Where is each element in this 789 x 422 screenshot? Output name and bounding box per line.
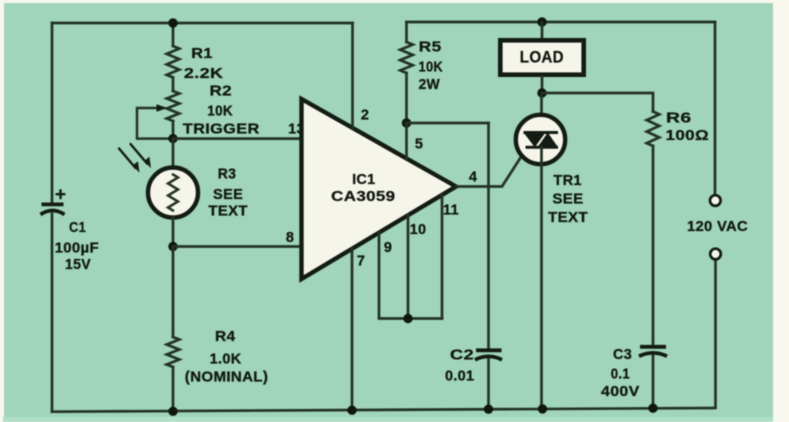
wire - LOAD bottom lead — [541, 77, 544, 94]
label pin 7 — [357, 253, 365, 269]
svg-text:11: 11 — [443, 202, 459, 218]
wire - R1/R2 link — [172, 78, 175, 92]
label R2 — [183, 83, 260, 137]
wire - R4 top lead — [172, 247, 175, 338]
svg-text:TR1: TR1 — [553, 173, 582, 189]
wire - pin 2 lead — [351, 23, 354, 129]
label pin 13 — [288, 121, 305, 137]
svg-text:R6: R6 — [666, 111, 692, 127]
node - 9/10/11 junction — [403, 314, 412, 323]
wire - R6 branch top — [542, 93, 653, 112]
wire - LOAD top lead — [541, 22, 544, 40]
node - pin 8 junction — [168, 242, 177, 251]
svg-text:400V: 400V — [601, 384, 640, 400]
wire - right rail lower — [714, 259, 717, 407]
svg-text:4: 4 — [469, 169, 477, 185]
svg-text:CA3059: CA3059 — [331, 189, 395, 205]
svg-text:C1: C1 — [69, 220, 86, 236]
wire - left rail upper (C1 top lead) — [51, 23, 54, 204]
wire - R2 wiper arm — [137, 104, 168, 138]
resistor R1 — [167, 46, 180, 78]
label pin 11 — [443, 202, 459, 218]
svg-text:C3: C3 — [613, 347, 632, 363]
svg-text:(NOMINAL): (NOMINAL) — [185, 370, 268, 386]
svg-text:100µF: 100µF — [55, 241, 99, 257]
wire - left rail lower (C1 bottom lead) — [51, 214, 54, 412]
svg-text:TEXT: TEXT — [208, 203, 247, 219]
label TR1 — [548, 173, 588, 226]
wire - TR1 bottom terminal — [540, 147, 543, 409]
wire - pin 8 lead — [173, 245, 302, 248]
svg-text:R5: R5 — [419, 39, 442, 55]
svg-text:R3: R3 — [218, 166, 237, 182]
wire - R5 bottom lead — [405, 73, 408, 123]
node - trigger junction — [168, 134, 177, 143]
svg-text:15V: 15V — [65, 257, 91, 273]
wire - R3 top lead — [172, 139, 175, 167]
svg-text:TRIGGER: TRIGGER — [183, 122, 260, 138]
node - C2 bottom — [484, 405, 493, 414]
resistor R6 — [647, 112, 660, 147]
wire - top-left rail — [52, 22, 353, 25]
resistor R4 — [167, 337, 180, 367]
node - load top junction — [537, 17, 546, 26]
wire - pin 11 lead — [441, 195, 444, 319]
svg-text:LOAD: LOAD — [520, 49, 564, 67]
terminal - AC top — [710, 195, 721, 206]
wire - C2 top lead — [487, 123, 490, 350]
triac TR1 — [516, 115, 565, 164]
wire - pin 7 lead — [351, 249, 354, 411]
svg-text:R4: R4 — [215, 329, 235, 345]
svg-text:100Ω: 100Ω — [666, 128, 710, 144]
terminal - AC bottom — [710, 249, 721, 260]
label pin 4 — [469, 169, 477, 185]
node - TR1 top junction — [537, 88, 546, 97]
node - pin 5 junction — [402, 118, 411, 127]
label pin 10 — [410, 222, 427, 238]
svg-text:0.01: 0.01 — [445, 369, 474, 385]
svg-text:2W: 2W — [419, 77, 441, 93]
label R1 — [184, 46, 224, 82]
wire - pin 9 lead — [379, 232, 442, 318]
wire - R3 bottom lead — [172, 217, 175, 247]
label pin 8 — [286, 230, 294, 246]
label pin 2 — [361, 108, 369, 124]
wire - junction to C2 branch — [407, 122, 489, 125]
wire - R1 top lead — [172, 23, 175, 46]
node - C3 bottom — [648, 404, 657, 413]
op-amp U1 IC1 CA3059 — [302, 99, 457, 279]
capacitor C3 — [639, 347, 667, 356]
wire - pin 4 gate lead — [456, 148, 527, 187]
label R4 — [185, 329, 268, 385]
wire - R4 bottom lead — [172, 367, 175, 411]
wire - C2 bottom lead — [487, 360, 490, 410]
wire - pin 5 lead — [405, 123, 408, 159]
label pin 5 — [415, 137, 423, 153]
potentiometer R2 — [167, 91, 180, 121]
wire - bottom rail — [52, 408, 715, 412]
svg-text:5: 5 — [415, 137, 423, 153]
wire - R2 bottom lead — [172, 121, 175, 139]
svg-text:8: 8 — [286, 230, 294, 246]
label R3 — [208, 166, 247, 219]
wire - R5 top lead — [405, 22, 408, 42]
label R5 — [419, 39, 444, 93]
svg-text:C2: C2 — [450, 348, 474, 364]
svg-text:TEXT: TEXT — [548, 210, 588, 226]
wire - top-right rail — [407, 21, 716, 24]
svg-text:10K: 10K — [419, 59, 444, 75]
label 120 VAC — [687, 219, 748, 235]
capacitor C1 — [41, 190, 65, 214]
node - top rail R1 junction — [168, 18, 177, 27]
svg-text:10K: 10K — [207, 104, 233, 120]
label C3 — [601, 347, 640, 400]
node - TR1 bottom — [538, 404, 547, 413]
svg-text:9: 9 — [384, 240, 392, 256]
svg-text:10: 10 — [410, 222, 427, 238]
svg-text:7: 7 — [357, 253, 365, 269]
svg-text:2.2K: 2.2K — [184, 66, 224, 82]
label C2 — [445, 348, 474, 385]
wire - pin 13 lead — [173, 137, 302, 140]
svg-text:SEE: SEE — [552, 192, 583, 208]
node - pin7 bottom — [347, 406, 356, 415]
light arrows into R3 — [119, 144, 151, 173]
wire - right rail upper — [714, 22, 717, 195]
wire - C3 bottom lead — [652, 356, 655, 408]
svg-text:SEE: SEE — [213, 187, 243, 203]
LOAD box — [500, 40, 583, 74]
capacitor C2 — [475, 350, 502, 360]
label pin 9 — [384, 240, 392, 256]
node - R4 bottom — [168, 407, 177, 416]
svg-text:R1: R1 — [191, 46, 213, 62]
wire - pin 10 lead — [407, 215, 410, 318]
bottom brighter strip — [3, 417, 773, 422]
svg-text:2: 2 — [361, 108, 369, 124]
label R6 — [666, 111, 710, 145]
resistor R5 — [400, 42, 413, 73]
photoresistor R3 — [148, 168, 198, 218]
wire - TR1 top terminal — [540, 93, 543, 133]
svg-text:R2: R2 — [210, 83, 232, 99]
svg-text:120 VAC: 120 VAC — [687, 219, 748, 235]
svg-text:0.1: 0.1 — [611, 366, 630, 382]
label C1 value — [55, 220, 99, 273]
wire - R6 to C3 lead — [652, 146, 655, 346]
svg-text:IC1: IC1 — [352, 172, 375, 188]
svg-text:1.0K: 1.0K — [210, 351, 242, 367]
